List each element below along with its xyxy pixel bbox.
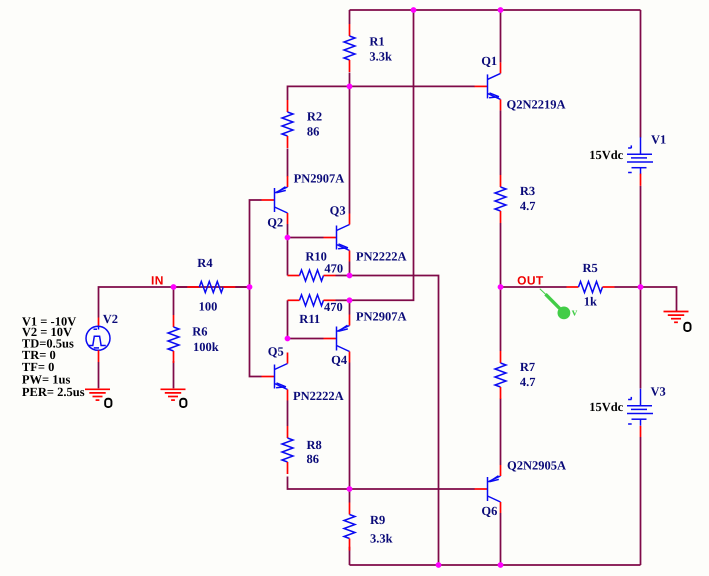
svg-text:15Vdc: 15Vdc <box>589 148 623 162</box>
svg-text:Q2N2219A: Q2N2219A <box>507 97 566 111</box>
junction: Q5 collector / Q4 base <box>285 336 291 342</box>
wire: V1 top from rail <box>640 10 642 138</box>
resistor R11 <box>288 299 300 301</box>
junction: top rail / Q1 collector <box>498 7 504 13</box>
wire: supply mid column V1-V3 <box>640 186 642 287</box>
junction: R10 right node <box>347 273 353 279</box>
svg-text:Q5: Q5 <box>268 345 284 359</box>
wire: Q3 base link <box>288 237 324 239</box>
transistor Q3 (PN2222A) <box>324 237 337 239</box>
ground (under V2) <box>85 388 110 390</box>
svg-text:R6: R6 <box>192 325 207 339</box>
wire: node-86 to Q3 collector <box>349 86 351 213</box>
wire: Q2/Q5 base bus <box>250 200 262 377</box>
svg-text:R3: R3 <box>520 184 535 198</box>
svg-text:Q4: Q4 <box>331 353 348 367</box>
wire: bottom rail <box>350 564 641 566</box>
wire: R3 to OUT node <box>500 223 502 287</box>
junction: bottom rail / x438 <box>436 562 442 568</box>
resistor R6 <box>173 315 175 327</box>
wire: OUT node to R7 <box>500 287 502 351</box>
voltage probe at OUT <box>540 289 546 295</box>
junction: R8-R9 node <box>347 486 353 492</box>
svg-text:v: v <box>572 306 578 318</box>
wire: R11 left corner down to Q5-collector node <box>287 300 289 338</box>
svg-text:Q2: Q2 <box>267 216 283 230</box>
dc source V1 (15Vdc) <box>640 137 642 154</box>
wire: node-86 row from R2 corner to Q1 base <box>288 86 475 100</box>
wire: R6 bottom to ground <box>173 361 175 388</box>
svg-text:R11: R11 <box>299 312 320 326</box>
wire: Q1 emitter to R3 <box>500 110 502 175</box>
svg-text:100k: 100k <box>193 340 219 354</box>
svg-text:3.3k: 3.3k <box>369 50 392 64</box>
resistor R1 <box>349 24 351 36</box>
wire: V2 bottom to ground <box>98 362 100 388</box>
wire: R2 bottom to Q2 emitter <box>287 149 289 177</box>
wire: Q4 emitter node down <box>349 300 351 314</box>
svg-text:R1: R1 <box>369 35 384 49</box>
ground (right) <box>664 311 689 313</box>
junction: R5 / supply column <box>638 284 644 290</box>
svg-text:V3: V3 <box>651 385 666 399</box>
svg-text:PER= 2.5us: PER= 2.5us <box>22 385 85 399</box>
svg-text:V1: V1 <box>651 133 666 147</box>
wire: Q3 emitter to R10-right node <box>349 262 351 276</box>
junction: R11 right node <box>347 297 353 303</box>
wire: Q3-base node down to R10 left <box>287 238 289 276</box>
svg-text:15Vdc: 15Vdc <box>589 400 623 414</box>
svg-text:100: 100 <box>199 300 218 314</box>
wire: Q1 collector to top rail <box>500 10 502 62</box>
junction: R4 / base bus <box>247 284 253 290</box>
junction: node-86 / R1 <box>347 84 353 90</box>
svg-text:Q3: Q3 <box>330 204 346 218</box>
svg-text:R8: R8 <box>307 438 322 452</box>
svg-text:V2: V2 <box>103 312 118 326</box>
svg-text:4.7: 4.7 <box>520 375 536 389</box>
wire: R4 left <box>174 286 188 288</box>
svg-text:PN2907A: PN2907A <box>294 172 345 186</box>
svg-text:86: 86 <box>307 125 320 139</box>
transistor Q4 (PN2907A) <box>324 338 337 340</box>
svg-text:1k: 1k <box>584 295 597 309</box>
transistor Q1 (Q2N2219A) <box>475 85 488 87</box>
pulse source V2 <box>98 326 100 329</box>
svg-text:86: 86 <box>307 452 320 466</box>
wire: OUT node to right ground <box>641 287 677 311</box>
wire: R6 top <box>173 287 175 315</box>
svg-text:R5: R5 <box>583 261 598 275</box>
svg-text:Q2N2905A: Q2N2905A <box>507 459 566 473</box>
resistor R9 <box>349 503 351 515</box>
svg-text:PN2907A: PN2907A <box>356 310 407 324</box>
resistor R8 <box>287 426 289 438</box>
wire: R9 bottom to rail <box>349 547 351 565</box>
resistor R2 <box>287 100 289 112</box>
svg-text:PN2222A: PN2222A <box>356 250 407 264</box>
svg-text:OUT: OUT <box>517 273 544 287</box>
junction: IN node <box>171 284 177 290</box>
pin stub: V2 top <box>98 318 100 327</box>
wire: R10-right node to bottom rail via x438 <box>336 276 439 566</box>
transistor Q2 (PN2907A) <box>262 199 275 201</box>
svg-text:Q6: Q6 <box>481 504 497 518</box>
svg-text:R4: R4 <box>197 256 213 270</box>
junction: top rail / x413 <box>411 7 417 13</box>
ground (under R6) <box>161 388 186 390</box>
svg-text:R7: R7 <box>520 360 535 374</box>
junction: bottom rail / Q6 collector <box>498 562 504 568</box>
svg-text:PN2222A: PN2222A <box>293 389 344 403</box>
svg-text:R9: R9 <box>370 513 385 527</box>
resistor R7 <box>500 351 502 363</box>
svg-text:470: 470 <box>324 300 343 314</box>
resistor R5 <box>567 286 579 288</box>
svg-text:3.3k: 3.3k <box>370 532 393 546</box>
wire: Q6 collector to bottom rail <box>500 513 502 565</box>
wire: R9 top <box>349 489 351 503</box>
wire: Q4 collector down to R8/R9 node row <box>349 363 351 490</box>
wire: node row to Q6 base <box>288 477 475 490</box>
wire: Q5-collector node to Q4 base <box>288 338 324 340</box>
wire: Q5 emitter to R8 <box>287 401 289 427</box>
wire: IN source wire <box>99 287 250 318</box>
resistor R10 <box>288 275 300 277</box>
junction: Q2 collector / Q3 base <box>285 235 291 241</box>
wire: R11 right to node <box>336 299 350 301</box>
resistor R4 <box>187 286 199 288</box>
wire: OUT row to R5 <box>501 286 567 288</box>
wire: R7 to Q6 emitter <box>500 399 502 466</box>
transistor Q6 (Q2N2905A) <box>475 488 488 490</box>
wire: Q2 collector to Q3-base node <box>287 224 289 238</box>
svg-text:4.7: 4.7 <box>520 199 536 213</box>
junction: OUT node <box>498 284 504 290</box>
wire: V3 bottom to rail <box>640 437 642 565</box>
dc source V3 (15Vdc) <box>640 389 642 406</box>
resistor R3 <box>500 175 502 187</box>
wire: top power rail <box>350 9 641 11</box>
svg-text:IN: IN <box>151 274 164 288</box>
transistor Q5 (PN2222A) <box>262 376 275 378</box>
wire: R4 right to base bus <box>235 286 249 288</box>
svg-text:R2: R2 <box>307 110 322 124</box>
wire: R5 right to supply column <box>615 286 641 288</box>
wire: top rail drop to Q4-emitter node via x413 <box>350 10 414 300</box>
wire: R1 top stub <box>349 10 351 24</box>
svg-text:470: 470 <box>324 262 343 276</box>
svg-text:Q1: Q1 <box>481 54 497 68</box>
wire: R1 bottom to node-86 junction <box>349 73 351 87</box>
